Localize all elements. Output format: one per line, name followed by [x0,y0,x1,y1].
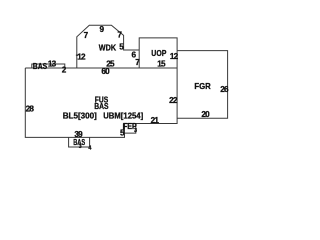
svg-text:20: 20 [201,110,210,119]
svg-text:4: 4 [88,146,92,152]
svg-text:7: 7 [84,31,89,40]
FEP porch box [123,124,135,134]
svg-text:BAS: BAS [33,62,48,71]
svg-text:WDK: WDK [99,43,116,52]
svg-text:BAS: BAS [94,102,109,111]
FGR garage box [177,51,228,119]
BAS bump top-left [32,64,65,68]
UOP porch box [139,38,177,68]
svg-text:28: 28 [26,105,35,114]
svg-text:26: 26 [220,85,229,94]
svg-text:2: 2 [62,66,67,75]
svg-text:3: 3 [134,128,137,134]
svg-text:7: 7 [117,31,122,40]
svg-text:12: 12 [77,53,86,62]
BAS bottom box [69,137,90,147]
svg-text:60: 60 [101,67,110,76]
svg-text:3: 3 [79,144,82,150]
svg-text:FGR: FGR [194,82,210,91]
WDK octagon deck [77,25,139,68]
svg-text:UBM[1254]: UBM[1254] [103,111,143,120]
main house outline [25,51,177,138]
svg-text:15: 15 [157,60,166,69]
svg-text:12: 12 [170,52,179,61]
svg-text:22: 22 [169,96,178,105]
tick next to 12 [76,54,79,56]
svg-text:UOP: UOP [151,49,167,58]
svg-text:BL5[300]: BL5[300] [63,111,97,120]
svg-text:9: 9 [100,25,105,34]
svg-text:13: 13 [48,59,57,68]
svg-text:21: 21 [151,116,160,125]
